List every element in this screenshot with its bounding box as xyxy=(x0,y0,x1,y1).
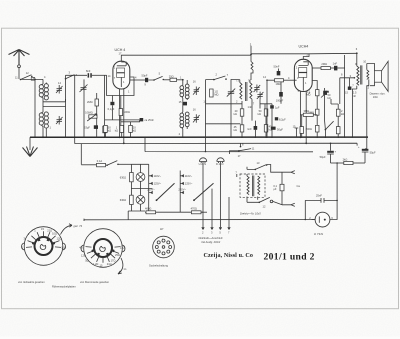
oscillator trimmers xyxy=(254,85,261,93)
resistor 300Ω xyxy=(300,115,312,138)
svg-text:25Ω: 25Ω xyxy=(169,74,174,78)
wire to rectifier xyxy=(336,163,338,200)
resistor 50kΩ xyxy=(104,125,112,137)
transformer core xyxy=(253,176,254,197)
rectifier tube UY1N xyxy=(309,212,333,236)
svg-text:kΩ: kΩ xyxy=(258,112,261,116)
capacitor 8nF xyxy=(86,69,107,78)
resistor 25Ω xyxy=(164,74,184,81)
IF1 secondary trimmer xyxy=(193,114,200,123)
svg-text:1,2Ω: 1,2Ω xyxy=(93,262,99,266)
resistor 45kΩ c xyxy=(234,125,244,138)
capacitor 0.1µF xyxy=(84,125,98,129)
antenna coil L2 xyxy=(39,109,51,138)
voltage taps left xyxy=(141,164,162,212)
trimmer capacitor C2 xyxy=(56,116,63,125)
cathode capacitor 0.1µF xyxy=(108,96,115,120)
gez. arrow xyxy=(61,224,83,235)
arrow right socket xyxy=(118,258,127,274)
pickup terminal fork lower xyxy=(282,203,295,206)
oscillator coupling coil xyxy=(251,55,253,80)
grid leak 1MΩ xyxy=(266,79,294,138)
ground xyxy=(23,137,38,156)
capacitor 8.2µF xyxy=(270,105,280,137)
resistor 630Ω upper xyxy=(120,173,133,182)
tube 1 heater pins xyxy=(120,89,124,144)
svg-text:von Klemmseite gesehen: von Klemmseite gesehen xyxy=(80,280,110,284)
svg-text:gez. 74: gez. 74 xyxy=(74,224,83,228)
oscillator tuning capacitor xyxy=(227,79,235,137)
svg-text:50µF: 50µF xyxy=(277,127,283,131)
antenna xyxy=(9,50,30,80)
capacitor 1nF output xyxy=(330,61,344,70)
svg-text:Czeija, Nissl u. Co: Czeija, Nissl u. Co xyxy=(204,253,253,259)
svg-text:1nF: 1nF xyxy=(247,127,252,131)
anode resistor 2MΩ xyxy=(321,62,330,69)
svg-text:Röhrensockelplatten: Röhrensockelplatten xyxy=(52,285,76,289)
svg-text:10Ω: 10Ω xyxy=(52,232,57,236)
heater bus 2 xyxy=(75,143,357,145)
svg-text:50µF: 50µF xyxy=(370,150,376,154)
terminal 2 xyxy=(202,162,204,235)
lamp chain wires xyxy=(128,164,152,219)
capacitor 1nF xyxy=(247,121,257,138)
junction dots on buses xyxy=(65,136,354,220)
svg-text:2MΩ: 2MΩ xyxy=(321,62,327,66)
svg-text:1nF: 1nF xyxy=(248,105,253,109)
tuning capacitor C3 xyxy=(80,79,88,137)
svg-text:630Ω: 630Ω xyxy=(120,175,126,179)
svg-text:100pF: 100pF xyxy=(276,98,284,102)
pickup terminal fork upper xyxy=(282,171,300,189)
capacitor 25nF rectifier xyxy=(305,193,337,219)
wire down to ground bus xyxy=(34,79,36,137)
tube 2 heater pins xyxy=(300,91,306,143)
mains bottom bus xyxy=(81,144,315,221)
svg-text:12Ω: 12Ω xyxy=(57,236,62,240)
node 3 on top bus xyxy=(250,54,252,56)
tube UCH4 first xyxy=(113,48,130,89)
svg-text:0,1A: 0,1A xyxy=(97,159,103,163)
capacitor 2.5nF xyxy=(345,78,357,98)
svg-text:8nF: 8nF xyxy=(86,69,91,73)
svg-text:110V~: 110V~ xyxy=(185,174,193,178)
scale lamp socket right xyxy=(216,158,224,166)
capacitor ca 25nF xyxy=(140,118,155,122)
svg-text:0,1µF: 0,1µF xyxy=(108,107,115,111)
svg-text:630Ω: 630Ω xyxy=(120,198,126,202)
svg-text:Drehko—Nr. 10x5: Drehko—Nr. 10x5 xyxy=(240,211,261,215)
svg-text:nF: nF xyxy=(353,94,356,98)
vertical rail x65.5 xyxy=(65,75,67,137)
svg-text:11Ω: 11Ω xyxy=(61,245,66,249)
svg-text:2MΩ: 2MΩ xyxy=(87,100,93,104)
output transformer secondary xyxy=(363,60,370,149)
antenna coil L1 xyxy=(39,75,61,100)
svg-text:U·Ω·N: U·Ω·N xyxy=(199,162,207,166)
switch 5 xyxy=(148,72,164,81)
mains transformer dashed box xyxy=(240,174,265,197)
svg-text:UCH 4: UCH 4 xyxy=(115,48,126,52)
svg-text:kΩ: kΩ xyxy=(234,112,237,116)
svg-text:ca 25nF: ca 25nF xyxy=(145,118,155,122)
pin 15 stub xyxy=(293,124,299,137)
svg-text:4Ω: 4Ω xyxy=(79,245,82,249)
vertical rail x104.5 xyxy=(104,75,106,126)
resistor 1kΩ left xyxy=(103,126,107,137)
IF transformer 1 primary xyxy=(180,80,189,100)
svg-text:110V~: 110V~ xyxy=(154,174,162,178)
resistor 20kΩ xyxy=(121,120,140,137)
resistor 50kΩ d xyxy=(264,125,272,138)
resistor 100Ω cathode xyxy=(119,96,130,126)
svg-text:50µF: 50µF xyxy=(320,155,326,159)
fuse 0.1A xyxy=(81,159,105,167)
svg-text:bei Ausfg. 201/2: bei Ausfg. 201/2 xyxy=(202,240,221,244)
scale lamp socket left xyxy=(199,158,207,166)
wire antenna node to coil xyxy=(21,78,43,80)
terminal 21 box xyxy=(31,78,35,81)
svg-text:µF: µF xyxy=(273,187,276,191)
resistor 460Ω xyxy=(145,207,203,214)
transformer winding right xyxy=(258,176,260,195)
loudspeaker xyxy=(370,61,389,99)
svg-text:50nF: 50nF xyxy=(274,65,280,69)
svg-text:von rückwärts gesehen: von rückwärts gesehen xyxy=(18,280,45,284)
svg-text:5Ω: 5Ω xyxy=(85,259,88,263)
svg-text:220V~: 220V~ xyxy=(178,188,186,192)
output transformer primary xyxy=(352,53,359,137)
resistor 2MΩ xyxy=(87,93,99,137)
socket small Sockelschaltung xyxy=(153,227,175,258)
voltage selector arm right xyxy=(193,183,213,201)
svg-text:0,5MΩ: 0,5MΩ xyxy=(85,111,93,115)
resistor 3MΩ xyxy=(300,109,317,116)
IF1 trimmer xyxy=(193,87,200,96)
svg-text:Netztrafo—Anschluß: Netztrafo—Anschluß xyxy=(199,236,223,240)
transformer leads xyxy=(237,174,258,202)
wire cathode row xyxy=(105,119,140,121)
svg-text:UCH4: UCH4 xyxy=(299,45,309,49)
oscillator switch 2/7 xyxy=(206,72,229,151)
svg-text:25nF: 25nF xyxy=(316,193,322,197)
svg-text:12Ω: 12Ω xyxy=(81,253,86,257)
volume potentiometer 50kΩ xyxy=(321,88,331,103)
wire grid line xyxy=(66,74,88,76)
output transformer core xyxy=(361,65,362,84)
electrolytic 50µF first xyxy=(320,143,337,163)
vertical rail x344.6 xyxy=(344,55,346,137)
resistor 630Ω lower xyxy=(120,195,133,204)
resistor 200Ω xyxy=(316,125,320,137)
grid capacitor 50nF xyxy=(274,65,281,76)
svg-text:Ca: Ca xyxy=(297,184,301,188)
capacitor 100pF xyxy=(276,82,284,104)
resistor 470Ω xyxy=(191,207,207,214)
dial lamp 1 xyxy=(136,173,145,182)
svg-text:63µF: 63µF xyxy=(84,126,90,130)
TA switch upper xyxy=(247,161,282,172)
svg-text:Sockelschaltung: Sockelschaltung xyxy=(149,264,168,268)
svg-text:125V~: 125V~ xyxy=(185,182,193,186)
screen tap wire xyxy=(340,74,355,104)
svg-text:2kΩ: 2kΩ xyxy=(343,157,348,161)
IF transformer 1 secondary xyxy=(180,112,189,137)
svg-text:50pF: 50pF xyxy=(142,73,148,77)
coupling capacitor 0.1µF TA xyxy=(273,172,284,205)
resistor 45kΩ a xyxy=(234,109,244,125)
TA switch lower xyxy=(247,197,282,208)
oscillator trimmer 2 xyxy=(257,92,264,100)
svg-text:8,2µF: 8,2µF xyxy=(279,117,286,121)
oscillator transformer windings xyxy=(231,79,252,102)
terminal 5 xyxy=(219,162,221,235)
resistor 2kΩ b xyxy=(258,109,268,125)
resistor 2kΩ filter xyxy=(331,157,366,164)
svg-text:kΩ: kΩ xyxy=(341,112,344,116)
svg-text:U Y1N: U Y1N xyxy=(314,232,323,236)
svg-text:1nF: 1nF xyxy=(333,61,338,65)
terminal 7 xyxy=(228,197,230,234)
svg-text:kΩ: kΩ xyxy=(108,129,111,133)
svg-text:1MΩ: 1MΩ xyxy=(276,82,282,86)
svg-text:470Ω: 470Ω xyxy=(191,207,197,211)
antenna band switch S1 xyxy=(15,71,36,80)
resistor 1/2MΩ xyxy=(210,89,219,97)
switch 18 xyxy=(325,103,334,137)
socket diagram left xyxy=(22,227,66,266)
svg-text:Ω7: Ω7 xyxy=(160,227,164,231)
resistor 1kΩ right of tube2 xyxy=(336,116,340,137)
svg-text:21Ω: 21Ω xyxy=(107,262,112,266)
wire link coils xyxy=(43,98,66,109)
tube UCH4 second xyxy=(294,45,321,95)
svg-text:100Ω: 100Ω xyxy=(124,110,130,114)
svg-text:1µF: 1µF xyxy=(275,105,280,109)
svg-text:12Ω: 12Ω xyxy=(120,245,125,249)
svg-text:220V~: 220V~ xyxy=(147,188,155,192)
potentiometer 0.5MΩ xyxy=(85,111,97,121)
label Netztrafo xyxy=(199,236,223,244)
svg-text:10Ω: 10Ω xyxy=(373,95,378,99)
svg-text:kΩ: kΩ xyxy=(234,128,237,132)
main chassis bus thick xyxy=(30,136,368,138)
svg-text:3MΩ: 3MΩ xyxy=(304,109,310,113)
svg-text:201/1 und 2: 201/1 und 2 xyxy=(264,251,315,262)
mains switch xyxy=(106,161,131,166)
voltage taps right xyxy=(178,171,192,213)
svg-text:kΩ: kΩ xyxy=(115,129,118,133)
svg-text:25Ω: 25Ω xyxy=(115,253,120,257)
resistor 1kΩ xyxy=(115,125,124,137)
resistor 2kΩ tall xyxy=(331,99,344,116)
svg-text:kΩ: kΩ xyxy=(328,96,331,100)
transformer winding left xyxy=(247,176,249,195)
terminal 3 xyxy=(211,189,213,235)
top HT bus xyxy=(121,53,357,55)
anode wire of tube1 with capacitor 50pF xyxy=(130,73,148,82)
svg-text:MΩ: MΩ xyxy=(214,93,218,97)
trimmer capacitor C1 xyxy=(56,85,63,94)
capacitor 8.2µF label pair xyxy=(248,105,287,132)
resistor 0.1MΩ xyxy=(306,89,319,125)
node 6 on top bus xyxy=(356,52,358,54)
svg-text:460Ω: 460Ω xyxy=(145,207,151,211)
heater bus 3 xyxy=(145,137,313,152)
grid return loop around tube 1 xyxy=(107,75,134,95)
socket diagram right xyxy=(79,229,125,268)
svg-text:125V~: 125V~ xyxy=(154,182,162,186)
wires oscillator section bottom xyxy=(206,99,273,123)
svg-text:17Ω: 17Ω xyxy=(111,258,116,262)
svg-text:kΩ: kΩ xyxy=(133,129,136,133)
svg-text:D·Ω·N: D·Ω·N xyxy=(216,162,224,166)
IF1 link xyxy=(182,98,184,112)
extra pin number labels xyxy=(108,62,357,136)
voltage selector arm left xyxy=(156,183,175,201)
band switch S2 xyxy=(65,70,78,79)
svg-text:200Ω: 200Ω xyxy=(306,127,312,131)
electrolytic 50µF second xyxy=(358,146,376,163)
dial lamp 2 xyxy=(136,195,145,204)
switch 8/11 under heater bus xyxy=(230,142,255,158)
